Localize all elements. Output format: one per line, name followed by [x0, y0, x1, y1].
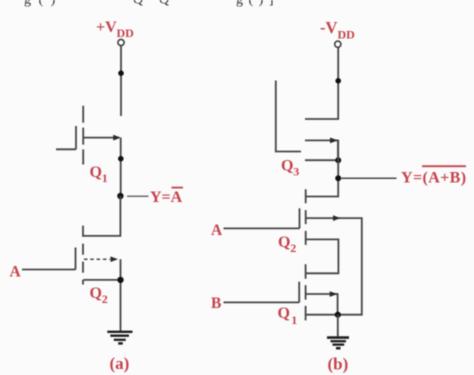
junction dot Q1 source — [118, 156, 124, 162]
label Q2 — [90, 285, 108, 306]
ground symbol (b) — [327, 338, 349, 349]
label Y = A-bar — [150, 188, 183, 206]
wire rail Q3 source to Q2 drain corner — [307, 140, 339, 196]
junction dot Q1b source node — [335, 312, 341, 318]
transistor Q2 (driver MOSFET, dashed substrate arrow) — [76, 226, 121, 285]
label Y = (A+B) with overline — [401, 166, 466, 186]
label Q1 (b) — [278, 305, 298, 327]
label -VDD — [320, 18, 355, 41]
svg-text:Y=(A+B): Y=(A+B) — [401, 170, 466, 187]
label A input (b) — [211, 222, 223, 239]
wire Q1 source to output node Y — [120, 138, 122, 196]
transistor Q1 (depletion load MOSFET) — [56, 106, 121, 165]
power terminal +VDD (open circle) — [118, 39, 124, 45]
junction dot Q3 source — [335, 157, 341, 163]
svg-text:Q: Q — [90, 164, 102, 181]
transistor Q1b gate bar — [298, 282, 300, 303]
wire input A lead (b) — [224, 227, 300, 229]
node Y junction dot (b) — [335, 175, 341, 181]
power terminal -VDD (open circle) — [335, 41, 341, 47]
svg-text:(b): (b) — [328, 355, 349, 374]
ground symbol (a) — [107, 332, 132, 344]
transistor Q1b channel (dashed) — [305, 264, 307, 321]
transistor Q3 arrow lead — [305, 138, 338, 161]
svg-text:+V: +V — [96, 19, 117, 36]
svg-text:-V: -V — [320, 18, 337, 37]
svg-text:g ( ): g ( ) — [24, 0, 57, 8]
label Q2 (b) — [278, 234, 296, 255]
label B input — [211, 295, 221, 312]
transistor Q3 gate bracket — [276, 81, 301, 152]
label (a) — [110, 354, 130, 373]
svg-text:(a): (a) — [110, 354, 130, 373]
svg-text:A: A — [10, 263, 22, 280]
wire output stub to label (b) — [342, 177, 397, 179]
transistor Q2b arrow lead and wire to Q1b source node — [307, 215, 362, 314]
wire VDD rail down to Q1 drain — [120, 46, 122, 116]
transistor Q3 source lead — [305, 159, 338, 161]
transistor Q2b gate bar — [299, 208, 301, 228]
label Q1 — [90, 164, 108, 185]
label Q3 — [281, 158, 299, 179]
transistor Q2b channel (dashed) — [305, 189, 307, 246]
svg-text:DD: DD — [338, 28, 356, 42]
svg-text:2: 2 — [290, 241, 296, 255]
wire output stub to label — [127, 195, 149, 197]
wire VDD rail down to Q3 drain corner — [305, 48, 338, 120]
svg-text:1: 1 — [291, 313, 297, 327]
svg-text:Q: Q — [278, 305, 290, 322]
svg-text:3: 3 — [293, 165, 299, 179]
wire Q1b source to ground — [337, 315, 339, 337]
wire input B lead — [224, 301, 300, 303]
svg-text:Q: Q — [278, 234, 290, 251]
node Y junction dot — [117, 193, 123, 199]
wire input A lead — [22, 269, 76, 271]
svg-text:Q: Q — [159, 0, 169, 8]
svg-text:g ( ) ]: g ( ) ] — [236, 0, 275, 8]
svg-text:Q: Q — [90, 285, 102, 302]
junction dot Q2 source node — [117, 277, 123, 283]
svg-text:Q: Q — [133, 0, 143, 8]
cropped text line at top — [24, 0, 275, 8]
junction dot on VDD rail — [118, 70, 124, 76]
label A input (a) — [10, 263, 22, 280]
wire output node down to Q2 drain — [83, 196, 120, 236]
svg-text:Y=A: Y=A — [150, 189, 183, 206]
svg-text:B: B — [211, 295, 221, 312]
label +VDD — [96, 19, 134, 40]
wire Q2b source to Q1b drain (U link) — [306, 239, 339, 273]
wire Q2 source to ground — [120, 259, 122, 331]
svg-text:2: 2 — [102, 292, 108, 306]
label (b) — [328, 355, 349, 374]
transistor Q1b source lead — [306, 314, 338, 316]
junction dot on -VDD rail — [335, 78, 341, 84]
svg-text:Q: Q — [281, 158, 293, 175]
transistor Q1b arrow lead — [306, 291, 338, 314]
svg-text:A: A — [211, 222, 223, 239]
svg-text:1: 1 — [102, 171, 108, 185]
svg-text:DD: DD — [117, 26, 135, 40]
